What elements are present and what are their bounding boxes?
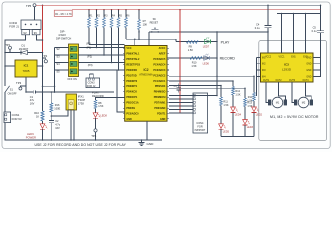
wire rail B red bbox=[72, 9, 320, 11]
wire S1 to CON1 bbox=[4, 92, 6, 112]
DIP switch SW1 body bbox=[69, 44, 79, 77]
svg-text:FOR J2: FOR J2 bbox=[87, 85, 96, 88]
svg-text:DIP-: DIP- bbox=[60, 29, 65, 33]
wire TSOP leg 2 bbox=[70, 110, 72, 140]
svg-text:R10: R10 bbox=[34, 111, 39, 115]
wire rows IC2 to CON4 bbox=[169, 95, 217, 97]
svg-text:TP1: TP1 bbox=[5, 43, 11, 47]
resistor R6 4.7K bbox=[125, 10, 127, 18]
wire IN bus vertical bbox=[256, 58, 258, 96]
svg-text:L293D: L293D bbox=[282, 68, 292, 72]
wire CON1 to ground bus bbox=[5, 123, 162, 140]
LED2 bbox=[252, 107, 257, 112]
capacitor C5 0.1u bbox=[317, 30, 324, 32]
svg-text:TP5: TP5 bbox=[26, 4, 32, 8]
svg-text:LED5: LED5 bbox=[223, 130, 230, 133]
svg-text:VCC2: VCC2 bbox=[265, 56, 272, 58]
svg-text:VCC1: VCC1 bbox=[278, 56, 285, 58]
switch S1 ON/OFF bbox=[5, 86, 10, 93]
svg-text:PC4/ADC4: PC4/ADC4 bbox=[153, 63, 166, 66]
svg-text:PB2/SS: PB2/SS bbox=[126, 107, 135, 110]
wire row to LED3 column bbox=[169, 87, 245, 89]
svg-text:POWER: POWER bbox=[26, 135, 36, 139]
svg-text:GND: GND bbox=[126, 118, 132, 121]
svg-text:1.5K: 1.5K bbox=[98, 104, 104, 108]
svg-text:GND: GND bbox=[147, 142, 155, 146]
ground bbox=[141, 140, 143, 143]
svg-text:OUT3: OUT3 bbox=[289, 80, 296, 82]
LED7 PLAY bbox=[205, 39, 211, 43]
wire DIP left common bbox=[55, 47, 69, 49]
svg-text:PC0/ADC0: PC0/ADC0 bbox=[126, 112, 139, 115]
svg-text:GND: GND bbox=[306, 77, 311, 79]
resistor R14 1.5K bbox=[253, 76, 255, 92]
svg-text:PD6/AIN0: PD6/AIN0 bbox=[154, 107, 166, 110]
IR receiver IRX1 TSOP1738 bbox=[66, 94, 77, 110]
wire rail A top dark part bbox=[180, 5, 321, 30]
wire row to LED5 column bbox=[169, 85, 221, 87]
svg-text:PD1/TXD: PD1/TXD bbox=[126, 74, 137, 77]
svg-text:RECORD: RECORD bbox=[92, 94, 104, 98]
svg-text:IC3: IC3 bbox=[284, 62, 289, 66]
wire LED ground bus bbox=[221, 136, 254, 138]
battery 9V cell 2 bbox=[32, 30, 40, 35]
svg-text:C1: C1 bbox=[30, 95, 34, 99]
svg-text:R8: R8 bbox=[98, 101, 102, 105]
capacitor C4 0.1u bbox=[267, 5, 269, 25]
svg-text:OUT2: OUT2 bbox=[275, 80, 282, 82]
svg-text:AREF: AREF bbox=[159, 53, 166, 56]
resistor R8 1.5K bbox=[94, 100, 97, 109]
svg-text:FOR: FOR bbox=[197, 126, 202, 129]
wire IC3 ground bus right bbox=[320, 33, 322, 77]
svg-text:GND: GND bbox=[160, 118, 166, 121]
svg-text:DIP SWITCH: DIP SWITCH bbox=[56, 37, 71, 41]
svg-text:1K: 1K bbox=[36, 115, 39, 119]
resistor R10 1.5K bbox=[190, 57, 202, 60]
svg-text:PC5/ADC5: PC5/ADC5 bbox=[153, 58, 166, 61]
wire row to IN area bbox=[169, 75, 254, 77]
svg-text:LED7: LED7 bbox=[203, 45, 210, 49]
svg-text:1.5K: 1.5K bbox=[191, 64, 197, 68]
wire TSOP leg 3 bbox=[73, 110, 75, 140]
svg-text:ISP/PORT: ISP/PORT bbox=[195, 130, 206, 132]
svg-text:PB7/XTAL2: PB7/XTAL2 bbox=[126, 58, 140, 61]
wire row into IC2 pin bbox=[89, 44, 125, 46]
svg-text:R9: R9 bbox=[189, 45, 193, 49]
svg-text:PC2/ADC2: PC2/ADC2 bbox=[153, 74, 166, 77]
wire red 5V vertical bbox=[179, 10, 181, 113]
resistor R13 1.5K bbox=[244, 88, 246, 98]
svg-text:C4: C4 bbox=[256, 23, 260, 27]
battery 9V cell 1 bbox=[22, 30, 30, 35]
resistor R11 1.5K bbox=[220, 86, 222, 98]
resistor R16 100E bbox=[50, 92, 52, 103]
capacitor C3 bbox=[178, 84, 180, 88]
capacitor C2 4.7u 16V bbox=[49, 120, 54, 122]
wire OUT1 to M1 bbox=[266, 82, 268, 102]
wire DIP row P2 bbox=[79, 62, 125, 64]
wire P3 jog to IC2 bbox=[117, 70, 125, 112]
svg-text:ATMEGA8A: ATMEGA8A bbox=[139, 74, 153, 77]
node rail B junctions bbox=[88, 9, 90, 11]
svg-text:M2: M2 bbox=[302, 102, 306, 105]
wire IC1 output bbox=[37, 65, 43, 67]
wire battery right leg bbox=[37, 35, 43, 40]
capacitor C1 47u 16V on bus bbox=[32, 91, 34, 94]
svg-text:1.5K: 1.5K bbox=[188, 48, 194, 52]
svg-text:R10: R10 bbox=[192, 61, 197, 65]
svg-text:ON/OFF: ON/OFF bbox=[8, 92, 18, 95]
svg-text:PB4/MISO: PB4/MISO bbox=[154, 91, 166, 94]
resistor R10 1K power bbox=[41, 111, 44, 121]
svg-text:R16: R16 bbox=[55, 103, 60, 107]
wire row to LED4 column bbox=[169, 80, 233, 82]
svg-text:9V: 9V bbox=[23, 31, 26, 35]
wire 5V bus bbox=[26, 91, 33, 93]
regulator IC1 7805 bbox=[15, 60, 37, 77]
svg-text:GND: GND bbox=[306, 70, 311, 72]
svg-text:C2: C2 bbox=[55, 119, 59, 123]
label box R1-R6 = 4.7K bbox=[54, 10, 72, 16]
motor driver IC3 L293D bbox=[261, 53, 314, 82]
svg-text:(P1): (P1) bbox=[87, 46, 92, 49]
svg-text:IC2: IC2 bbox=[144, 68, 149, 72]
svg-text:LED9: LED9 bbox=[27, 132, 34, 136]
svg-text:TP4: TP4 bbox=[91, 134, 97, 138]
svg-text:M1, M2 = 5V/9V DC MOTOR: M1, M2 = 5V/9V DC MOTOR bbox=[270, 115, 319, 119]
svg-text:LED3: LED3 bbox=[247, 126, 254, 129]
svg-text:PLAY/: PLAY/ bbox=[92, 90, 100, 94]
svg-text:TSOP: TSOP bbox=[78, 98, 86, 102]
resistor R12 1.5K bbox=[232, 81, 234, 87]
motor M2 bbox=[294, 100, 297, 105]
svg-text:1.5K: 1.5K bbox=[235, 93, 240, 96]
wire TSOP leg 1 to RC node bbox=[51, 110, 68, 116]
svg-text:0.1u: 0.1u bbox=[312, 29, 318, 33]
LED3 bbox=[243, 120, 248, 125]
svg-text:LED8: LED8 bbox=[100, 114, 107, 118]
connector CON4 FOR ISP PORT bbox=[193, 93, 208, 133]
svg-text:1738: 1738 bbox=[78, 102, 84, 106]
test point TP5 bbox=[33, 4, 36, 7]
svg-text:OUT1: OUT1 bbox=[263, 80, 270, 82]
wire PLAY row bbox=[176, 41, 217, 43]
svg-text:1.5K: 1.5K bbox=[223, 104, 228, 107]
connector CON3 FOR J2 bbox=[86, 78, 100, 88]
wire rail A top red part bbox=[36, 4, 180, 6]
svg-text:16V: 16V bbox=[30, 102, 35, 106]
wire red drop from rail A bbox=[42, 5, 44, 52]
svg-text:4.7u: 4.7u bbox=[55, 122, 61, 126]
svg-text:9V: 9V bbox=[34, 31, 37, 35]
svg-text:RESET/PC6: RESET/PC6 bbox=[126, 63, 140, 66]
node ground bus dots bbox=[42, 139, 44, 141]
wire stub into IC2 top bbox=[134, 39, 136, 45]
wire AVCC row bbox=[126, 39, 176, 41]
wire ground link bbox=[43, 85, 55, 87]
svg-text:TP3: TP3 bbox=[16, 81, 22, 85]
test point TP2 bbox=[43, 57, 46, 59]
wire reset row to C4 bbox=[149, 31, 268, 33]
resistor R9 1.5K bbox=[187, 41, 199, 44]
LED6 RECORD bbox=[204, 56, 210, 60]
node 5V bus junctions bbox=[51, 91, 53, 93]
resistor R7 10K bbox=[138, 10, 140, 20]
svg-text:R1 - R6 = 4.7K: R1 - R6 = 4.7K bbox=[55, 13, 72, 16]
svg-text:LED4: LED4 bbox=[235, 114, 242, 117]
wire battery left leg bbox=[5, 35, 26, 86]
svg-text:C5: C5 bbox=[313, 26, 317, 30]
wire OUT2 to M1 bbox=[279, 82, 286, 100]
wire VCC1 EN rail bbox=[277, 13, 321, 15]
svg-text:M1: M1 bbox=[276, 102, 280, 105]
svg-text:IRX1: IRX1 bbox=[78, 95, 84, 99]
svg-text:PD2/INT0: PD2/INT0 bbox=[126, 80, 137, 83]
svg-text:PB3/MOSI: PB3/MOSI bbox=[154, 96, 166, 99]
svg-text:IC1: IC1 bbox=[24, 63, 29, 67]
resistor R3 4.7K bbox=[103, 10, 105, 18]
wire TP5 to CON2 bbox=[34, 7, 36, 20]
test point TP4 bbox=[94, 129, 97, 132]
svg-text:47u: 47u bbox=[30, 98, 35, 102]
svg-text:PD0/RXD: PD0/RXD bbox=[126, 69, 137, 72]
svg-text:10K: 10K bbox=[143, 23, 148, 27]
wire 5V branch bus bbox=[216, 32, 218, 96]
LED4 bbox=[231, 107, 236, 112]
wire IC1 ground pin bbox=[25, 77, 27, 92]
svg-text:1.5K: 1.5K bbox=[247, 99, 252, 102]
svg-text:PB1/OC1A: PB1/OC1A bbox=[126, 102, 138, 105]
svg-text:R7: R7 bbox=[143, 19, 147, 23]
resistor R1 4.7K bbox=[88, 10, 90, 18]
svg-text:EN1: EN1 bbox=[291, 56, 296, 58]
node rail A junction bbox=[42, 4, 44, 6]
test point TP1 bbox=[9, 46, 12, 49]
svg-text:PD3/INT1: PD3/INT1 bbox=[126, 85, 137, 88]
svg-text:(P2): (P2) bbox=[87, 55, 92, 58]
svg-text:PC1/ADC1: PC1/ADC1 bbox=[153, 80, 166, 83]
wire IC2 to R8 bbox=[96, 98, 125, 100]
svg-text:FOR J1: FOR J1 bbox=[9, 24, 19, 28]
svg-text:GND: GND bbox=[306, 58, 311, 60]
svg-text:100E: 100E bbox=[54, 107, 60, 111]
svg-text:4-WAY: 4-WAY bbox=[58, 33, 66, 37]
svg-text:PB0/ICP1: PB0/ICP1 bbox=[126, 96, 137, 99]
svg-text:PLAY: PLAY bbox=[221, 40, 230, 44]
svg-text:16V: 16V bbox=[55, 126, 60, 130]
svg-text:PB6/XTAL1: PB6/XTAL1 bbox=[126, 53, 140, 56]
svg-text:LED2: LED2 bbox=[256, 114, 263, 117]
svg-text:0.1u: 0.1u bbox=[255, 26, 261, 30]
motor section box bbox=[259, 41, 327, 141]
svg-text:USE J2 FOR RECORD AND DO NOT U: USE J2 FOR RECORD AND DO NOT USE J2 FOR … bbox=[35, 143, 127, 147]
wire OUT4 to M2 bbox=[306, 82, 312, 100]
test point TP3 bbox=[20, 86, 26, 87]
wire RECORD row bbox=[167, 57, 217, 59]
wire OUT3 to M2 bbox=[292, 82, 294, 102]
resistor R4 4.7K bbox=[111, 10, 113, 18]
LED8 bbox=[93, 113, 98, 118]
svg-text:(P3): (P3) bbox=[88, 64, 93, 67]
LED5 bbox=[219, 124, 224, 129]
svg-text:D1: D1 bbox=[22, 43, 26, 47]
svg-text:OFF ON: OFF ON bbox=[67, 78, 77, 81]
wire 9V vertical to power LED bbox=[42, 53, 44, 112]
schematic border frame bbox=[2, 2, 330, 149]
wire IC2 ground drop bbox=[146, 121, 148, 140]
wire IC1 input bbox=[5, 65, 15, 67]
svg-text:PB5/SCK: PB5/SCK bbox=[155, 85, 166, 88]
svg-text:OUT4: OUT4 bbox=[302, 80, 309, 82]
svg-text:PD7/AIN1: PD7/AIN1 bbox=[154, 102, 166, 105]
svg-text:FOR 9V: FOR 9V bbox=[12, 117, 22, 121]
wire DIP row P3 bbox=[79, 69, 125, 71]
wire DIP row P1 bbox=[79, 54, 125, 56]
svg-text:PD5/T1: PD5/T1 bbox=[157, 112, 166, 115]
svg-text:RECORD: RECORD bbox=[220, 56, 236, 60]
svg-text:AVCC: AVCC bbox=[159, 47, 166, 50]
svg-text:LED6: LED6 bbox=[203, 61, 210, 65]
microcontroller IC2 ATMEGA8A bbox=[125, 46, 167, 122]
resistor R5 4.7K bbox=[118, 10, 120, 18]
svg-text:7805: 7805 bbox=[23, 69, 30, 73]
DIP switch elements S2-S5 bbox=[70, 46, 77, 51]
svg-text:RESET: RESET bbox=[150, 21, 159, 25]
svg-text:GND: GND bbox=[306, 64, 311, 66]
resistor R2 4.7K bbox=[96, 10, 98, 18]
motor M1 bbox=[268, 100, 271, 105]
svg-text:PC3/ADC3: PC3/ADC3 bbox=[153, 69, 166, 72]
svg-text:PD4/XCK: PD4/XCK bbox=[126, 91, 137, 94]
connector CON1 FOR 9V bbox=[4, 112, 11, 123]
wire DIP row P0 bbox=[79, 47, 125, 49]
svg-text:VCC: VCC bbox=[126, 47, 131, 50]
LED9 POWER bbox=[42, 121, 44, 124]
